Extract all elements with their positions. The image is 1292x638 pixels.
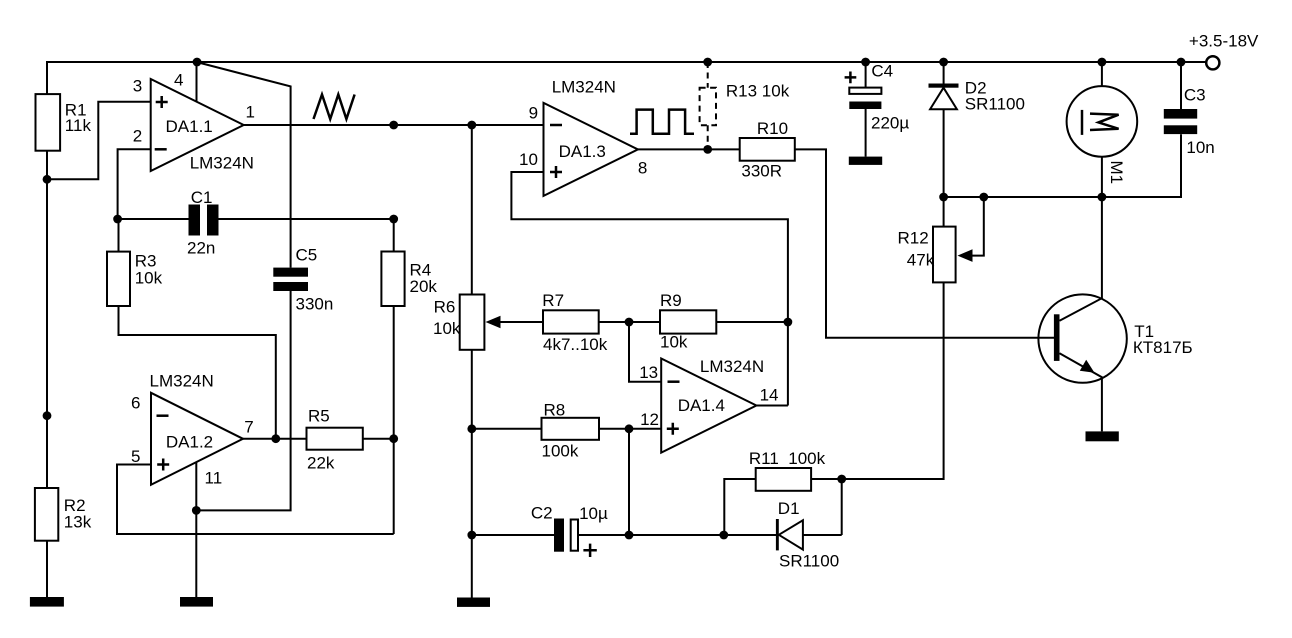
svg-text:10n: 10n — [1186, 138, 1214, 157]
wire C5 bottom to pin11 node — [196, 291, 290, 510]
wire R8 left lead — [472, 428, 542, 430]
node R11-R12-D1 — [837, 475, 846, 484]
svg-text:11: 11 — [205, 468, 223, 487]
node rail-R13 — [703, 58, 712, 67]
motor M1 body — [1067, 86, 1138, 157]
terminal +3.5-18V — [1206, 56, 1219, 69]
node C1-R4 — [389, 215, 398, 224]
plus sign input DA1.1 pin3 — [156, 96, 168, 108]
wire R1 bottom column to R2 top — [46, 151, 48, 488]
svg-text:DA1.4: DA1.4 — [678, 396, 725, 415]
svg-text:7: 7 — [244, 418, 253, 437]
svg-text:R8: R8 — [544, 401, 566, 420]
svg-text:+3.5-18V: +3.5-18V — [1189, 32, 1259, 51]
svg-text:C3: C3 — [1184, 86, 1206, 105]
svg-text:11k: 11k — [65, 116, 92, 135]
node R9-fb — [784, 318, 793, 327]
wire R2 bottom to ground — [46, 541, 48, 598]
minus sign input DA1.4 pin13 — [668, 380, 680, 383]
wire DA1.1 pin3 input net — [47, 102, 151, 180]
op-amp U DA1.4 — [661, 359, 756, 453]
svg-text:2: 2 — [133, 126, 142, 145]
svg-text:8: 8 — [638, 159, 647, 178]
capacitor C5 — [273, 268, 308, 277]
resistor R10 — [740, 138, 795, 161]
node R1-R2 pin3 — [43, 175, 52, 184]
minus sign input DA1.1 pin2 — [155, 148, 167, 151]
diode D2 — [929, 84, 959, 88]
svg-text:DA1.2: DA1.2 — [166, 433, 213, 452]
svg-text:5: 5 — [131, 447, 140, 466]
node rail-D2 — [939, 58, 948, 67]
svg-text:R12: R12 — [898, 229, 929, 248]
wire DA1.1 pin2 net — [118, 149, 151, 219]
wire D2 top lead — [943, 62, 945, 84]
svg-text:C1: C1 — [191, 188, 213, 207]
svg-text:13k: 13k — [64, 513, 92, 532]
svg-text:6: 6 — [131, 394, 140, 413]
plus sign of C2 — [583, 544, 596, 557]
node R8-pin12 — [625, 424, 634, 433]
wire R6 bottom column to ground — [471, 350, 473, 598]
wire R6 wiper from R7 — [500, 321, 544, 323]
ground at T1 emitter — [1086, 431, 1119, 441]
wire R8 right to DA1.4 pin12 — [599, 428, 661, 430]
svg-text:КТ817Б: КТ817Б — [1133, 338, 1193, 357]
plus sign input DA1.4 pin12 — [667, 423, 679, 435]
svg-text:10k: 10k — [135, 269, 163, 288]
wire C2 left lead — [472, 534, 554, 536]
svg-text:10k: 10k — [660, 333, 688, 352]
wire DA1.4 pin13 net — [629, 322, 661, 382]
svg-text:12: 12 — [640, 410, 659, 429]
plus sign input DA1.2 pin5 — [157, 459, 169, 471]
wire R11 left lead — [724, 479, 755, 535]
wire R6 top lead from output row — [471, 125, 473, 295]
capacitor C1 — [189, 205, 201, 236]
transistor Q T1 body — [1038, 294, 1126, 382]
op-amp U DA1.2 — [151, 393, 243, 485]
wire C1 right lead to R4 column — [219, 218, 394, 220]
svg-text:4: 4 — [174, 70, 183, 89]
resistor R9 — [660, 310, 716, 333]
svg-text:3: 3 — [133, 76, 142, 95]
wire C4 top lead — [865, 62, 867, 87]
svg-text:100k: 100k — [542, 442, 579, 461]
resistor R5 — [307, 428, 363, 450]
C4 negative terminal bar — [849, 157, 882, 165]
svg-text:DA1.3: DA1.3 — [559, 142, 606, 161]
svg-text:R7: R7 — [542, 291, 564, 310]
svg-text:330n: 330n — [296, 295, 334, 314]
svg-text:DA1.1: DA1.1 — [166, 117, 213, 136]
resistor R1 — [36, 94, 61, 151]
ground at DA1.2 pin11 — [180, 597, 213, 607]
wire T1 emitter to ground — [1060, 353, 1102, 431]
node out-R4col — [389, 121, 398, 130]
node pin11-C5 — [192, 506, 201, 515]
wire DA1.1 output row to DA1.3 pin9 — [244, 124, 544, 126]
wire diagonal from rail junction to C5 column — [197, 62, 291, 268]
wire C1 left lead — [118, 218, 189, 220]
triangle wave symbol — [314, 95, 355, 120]
wire DA1.1 pin4 power lead — [196, 62, 198, 102]
node rail-C4 — [861, 58, 870, 67]
wire R13 dashed top lead — [707, 62, 709, 88]
node C2-R11 — [719, 531, 728, 540]
wire DA1.2 pin5 net — [117, 465, 394, 535]
svg-text:R11 100k: R11 100k — [749, 449, 826, 468]
svg-text:9: 9 — [529, 103, 538, 122]
ground at R2 — [30, 597, 64, 607]
node R7-R9 — [625, 318, 634, 327]
op-amp U DA1.3 — [544, 103, 638, 196]
svg-text:LM324N: LM324N — [700, 357, 764, 376]
wire R12 bottom to R11 right node — [842, 282, 944, 479]
wire R13 dashed bottom lead — [707, 125, 709, 149]
wire R11 right lead — [811, 478, 842, 480]
wire motor bottom row to C3 bottom — [944, 134, 1181, 197]
svg-text:4k7..10k: 4k7..10k — [543, 335, 608, 354]
svg-text:LM324N: LM324N — [552, 77, 616, 96]
svg-text:220µ: 220µ — [871, 114, 909, 133]
resistor R4 — [381, 252, 404, 307]
wire R3 top lead — [118, 219, 120, 252]
svg-text:R9: R9 — [660, 291, 682, 310]
wire T1 collector — [1060, 197, 1102, 321]
wire C3 top lead — [1180, 62, 1182, 109]
node R8-R6col — [467, 424, 476, 433]
potentiometer R6 — [460, 295, 485, 350]
svg-text:10: 10 — [519, 150, 538, 169]
wire R3 bottom to DA1.2 output node — [119, 306, 276, 439]
wire R12 top lead — [943, 197, 945, 227]
wire C4 bottom lead to bar — [865, 109, 867, 157]
resistor R8 — [542, 418, 600, 440]
node out-R6col — [467, 121, 476, 130]
node R5-R4col — [389, 434, 398, 443]
capacitor C2 (electrolytic) — [554, 519, 564, 552]
svg-text:C5: C5 — [296, 246, 318, 265]
wire R5 right lead — [363, 438, 394, 440]
resistor R11 — [756, 468, 811, 491]
wire motor top lead — [1101, 62, 1103, 86]
wire motor bottom lead — [1101, 157, 1103, 197]
svg-text:R6: R6 — [434, 298, 456, 317]
svg-text:13: 13 — [639, 363, 658, 382]
node pin7-R5 — [271, 434, 280, 443]
svg-text:D1: D1 — [778, 499, 800, 518]
node rail-pin4 — [193, 58, 202, 67]
wire R9 right to feedback column — [716, 321, 788, 323]
svg-text:C4: C4 — [871, 62, 893, 81]
node M1-collector — [1098, 193, 1107, 202]
svg-text:R10: R10 — [757, 119, 788, 138]
wire R12 wiper — [971, 197, 984, 256]
wire C2 right lead to D1 row — [578, 534, 842, 536]
svg-text:22k: 22k — [307, 454, 335, 473]
motor M1 letter M rotated — [1090, 114, 1119, 130]
svg-text:R13 10k: R13 10k — [726, 82, 790, 101]
svg-text:47k: 47k — [907, 251, 935, 270]
wire R7 to R9 row — [599, 321, 662, 323]
wire DA1.3 pin10 feedback net — [511, 172, 788, 406]
plus sign of C4 — [845, 72, 857, 84]
wiper arrow of R6 — [486, 316, 501, 329]
svg-text:330R: 330R — [741, 162, 782, 181]
svg-text:14: 14 — [760, 385, 779, 404]
svg-text:22n: 22n — [187, 239, 215, 258]
ground at R6 column — [457, 598, 490, 607]
minus sign input DA1.3 pin9 — [550, 124, 562, 127]
svg-text:1: 1 — [246, 102, 255, 121]
resistor R13 (dashed optional) — [700, 88, 716, 126]
node D2-R12 — [939, 193, 948, 202]
wire D1 anode riser — [841, 479, 843, 535]
wire D2 anode to motor row — [943, 109, 945, 197]
minus sign input DA1.2 pin6 — [157, 414, 169, 417]
wire DA1.2 pin11 to ground — [195, 462, 197, 597]
wire R4 top lead — [393, 219, 395, 252]
wire top supply rail with R1 top lead — [47, 62, 1206, 94]
wire R10 right to T1 base — [795, 149, 1054, 337]
svg-text:10k: 10k — [433, 319, 461, 338]
resistor R3 — [107, 252, 130, 306]
wire DA1.4 pin14 output lead — [756, 405, 788, 407]
svg-text:10µ: 10µ — [579, 504, 608, 523]
capacitor C3 — [1164, 109, 1197, 119]
svg-text:SR1100: SR1100 — [779, 552, 839, 571]
wiper arrow of R12 — [958, 249, 973, 262]
node C1-R3 — [113, 215, 122, 224]
node wiper — [979, 193, 988, 202]
svg-text:20k: 20k — [410, 277, 438, 296]
svg-text:LM324N: LM324N — [150, 371, 214, 390]
svg-text:M1: M1 — [1107, 161, 1126, 185]
diode D1 — [776, 519, 779, 550]
svg-text:LM324N: LM324N — [190, 154, 254, 173]
wire R4 bottom column to pin5 row — [393, 306, 395, 534]
square wave symbol — [630, 110, 694, 134]
wire DA1.3 pin8 output to R10 — [638, 148, 740, 150]
plus sign input DA1.3 pin10 — [550, 166, 562, 178]
node pin6 — [43, 411, 52, 420]
svg-text:SR1100: SR1100 — [965, 95, 1025, 114]
svg-text:C2: C2 — [531, 504, 553, 523]
T1 base bar — [1054, 314, 1060, 361]
svg-text:R5: R5 — [308, 407, 330, 426]
op-amp U DA1.1 — [151, 79, 244, 171]
node C2-R6col — [467, 531, 476, 540]
node pin8-R13 — [703, 145, 712, 154]
capacitor C4 (electrolytic) — [849, 88, 881, 94]
junction node dots — [43, 58, 1186, 540]
node rail-C3 — [1177, 58, 1186, 67]
wire DA1.2 pin7 output to R5 — [243, 438, 307, 440]
resistor R2 — [35, 488, 58, 541]
node rail-M1 — [1098, 58, 1107, 67]
wire pin12 node to C2 row — [628, 429, 630, 535]
potentiometer R12 — [933, 227, 956, 283]
resistor R7 — [543, 310, 599, 333]
node C2-pin12col — [625, 531, 634, 540]
T1 emitter arrowhead — [1080, 360, 1095, 373]
